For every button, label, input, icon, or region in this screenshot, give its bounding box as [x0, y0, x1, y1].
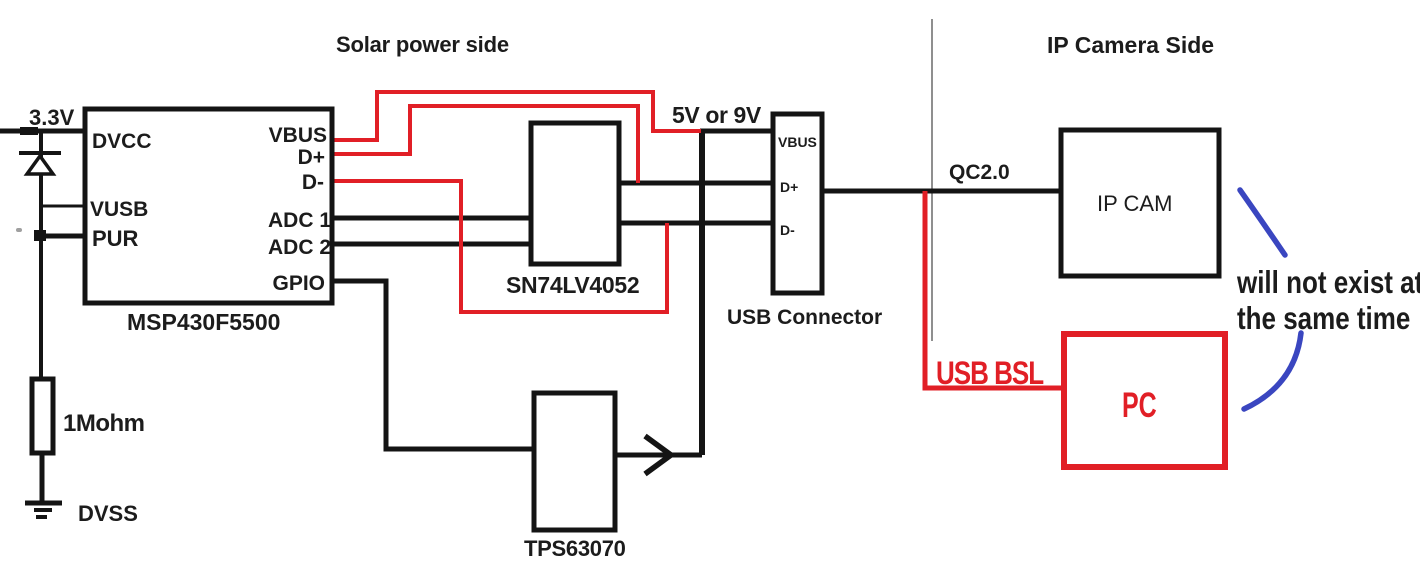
- svg-text:QC2.0: QC2.0: [949, 161, 1010, 184]
- wire: 5V/9V node to USB VBUS: [700, 129, 773, 134]
- wire: TPS63070 output: [615, 453, 702, 458]
- block: IP CAM body: [1061, 130, 1219, 276]
- svg-text:VUSB: VUSB: [90, 198, 148, 221]
- wire: 3.3V rail into DVCC: [0, 129, 88, 134]
- red wire: D- to SN74 output net: [332, 181, 667, 312]
- resistor R1 body: [32, 379, 53, 453]
- svg-text:DVSS: DVSS: [78, 501, 138, 526]
- block: PC body (red): [1064, 334, 1225, 467]
- wire: PUR stub: [41, 234, 88, 239]
- label PC (red): [1122, 386, 1157, 425]
- node: PUR junction blob: [34, 230, 46, 241]
- svg-text:D+: D+: [298, 146, 325, 169]
- wire: ADC 1: [334, 216, 531, 221]
- svg-text:D+: D+: [780, 179, 798, 195]
- IC U2 SN74LV4052 body: [531, 123, 619, 264]
- wire: VUSB stub: [41, 205, 88, 208]
- svg-text:USB Connector: USB Connector: [727, 306, 882, 329]
- svg-text:GPIO: GPIO: [272, 272, 325, 295]
- svg-text:DVCC: DVCC: [92, 130, 152, 153]
- svg-text:SN74LV4052: SN74LV4052: [506, 272, 639, 298]
- svg-text:MSP430F5500: MSP430F5500: [127, 309, 280, 335]
- svg-text:D-: D-: [780, 222, 795, 238]
- net label USB BSL (red): [936, 355, 1044, 391]
- svg-text:VBUS: VBUS: [269, 124, 327, 147]
- svg-text:USB BSL: USB BSL: [936, 355, 1044, 391]
- svg-text:PC: PC: [1122, 386, 1157, 425]
- diode D1 cathode bar: [19, 151, 61, 155]
- svg-text:ADC 2: ADC 2: [268, 236, 331, 259]
- blue brace lower stroke: [1244, 333, 1301, 409]
- svg-text:1Mohm: 1Mohm: [63, 410, 145, 437]
- connector J1 USB body: [773, 114, 822, 293]
- svg-text:IP Camera Side: IP Camera Side: [1047, 32, 1214, 58]
- ground DVSS symbol: [25, 503, 62, 517]
- svg-text:5V or 9V: 5V or 9V: [672, 102, 762, 128]
- IC U1 MSP430F5500 body: [85, 109, 332, 303]
- arrow on TPS63070 output: [645, 436, 671, 474]
- svg-text:the same time: the same time: [1237, 302, 1410, 337]
- node: junction blob on 3.3V rail: [20, 127, 38, 135]
- section divider line: [931, 19, 933, 341]
- IC U3 TPS63070 body: [534, 393, 615, 530]
- wire: ADC 2: [334, 242, 531, 247]
- svg-text:3.3V: 3.3V: [29, 105, 75, 130]
- svg-text:ADC 1: ADC 1: [268, 209, 331, 232]
- note line 2: the same time: [1237, 302, 1410, 337]
- wire: USB connector to IP CAM: [822, 189, 1063, 194]
- wire: SN74LV4052 out D+ to USB connector: [617, 181, 773, 186]
- svg-text:IP CAM: IP CAM: [1097, 191, 1172, 216]
- wire: 5V/9V vertical bus: [699, 131, 705, 455]
- diode D1 triangle: [27, 156, 53, 174]
- svg-text:D-: D-: [302, 171, 324, 194]
- svg-text:will not exist at: will not exist at: [1236, 266, 1420, 301]
- wire: GPIO to TPS63070 input: [334, 281, 536, 449]
- wire: resistor to ground: [40, 454, 45, 502]
- svg-text:PUR: PUR: [92, 226, 139, 251]
- red wire: D+ to SN74 output net: [332, 106, 638, 183]
- blue brace upper stroke: [1240, 190, 1285, 255]
- svg-text:Solar power side: Solar power side: [336, 32, 509, 57]
- stray mark: [16, 228, 22, 232]
- wire: vertical 3.3V down through diode to resistor: [39, 131, 43, 379]
- svg-text:VBUS: VBUS: [778, 134, 817, 150]
- red wire: VBUS to 5V/9V node: [332, 92, 701, 140]
- wire: SN74LV4052 out D- to USB connector: [617, 221, 773, 226]
- svg-text:TPS63070: TPS63070: [524, 536, 626, 561]
- red wire: USB BSL from USB-IPCAM net down to PC: [925, 191, 1064, 388]
- note line 1: will not exist at: [1236, 266, 1420, 301]
